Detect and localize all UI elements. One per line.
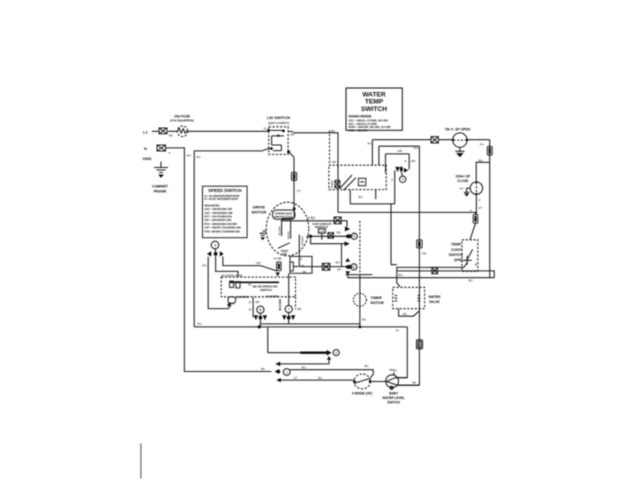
circle terminal 7 [285, 306, 292, 313]
wire PU drop from lid switch row down to bottom bus [193, 151, 195, 327]
node2 return wire [275, 356, 331, 366]
svg-text:BK/BU: BK/BU [330, 180, 334, 188]
bottom right bus y277.7 [348, 277, 495, 279]
svg-text:BK: BK [362, 317, 366, 321]
svg-text:BU: BU [359, 195, 363, 199]
wire 150A branch [476, 162, 490, 214]
circle terminal 6 [351, 264, 357, 270]
heavy contact bar [230, 281, 279, 283]
capacitor leg [321, 233, 323, 240]
svg-text:(open position): (open position) [268, 121, 289, 125]
node5 junction dot and arrow [346, 234, 353, 239]
svg-text:BU: BU [302, 366, 306, 370]
svg-text:BABY: BABY [389, 392, 399, 396]
wire node7 to bus [288, 318, 290, 324]
ground at 150A thermostat [464, 188, 470, 196]
wire link between rows [341, 244, 343, 267]
svg-text:JUMPER: JUMPER [237, 295, 250, 299]
svg-text:CAP: CAP [319, 229, 325, 233]
ground at TB thermostat [455, 147, 464, 157]
svg-text:TN: TN [480, 142, 484, 146]
svg-text:BK: BK [169, 134, 173, 138]
circle terminal 2 [333, 350, 339, 356]
wire contact box exit down left [349, 190, 351, 204]
svg-text:N: N [144, 146, 147, 151]
svg-text:FRAME: FRAME [154, 189, 167, 193]
svg-text:BU: BU [469, 279, 473, 283]
wire valve feed drop [397, 271, 400, 287]
timer row wire [346, 274, 373, 276]
connector on TB row [431, 137, 438, 143]
connector on y270.8 wire [432, 267, 438, 273]
contact wiper blades [340, 175, 366, 190]
circle terminal 5 [351, 233, 357, 239]
svg-text:CLOSE: CLOSE [457, 179, 468, 183]
circle terminal 1 [283, 369, 290, 376]
svg-text:B: B [301, 257, 303, 261]
svg-text:PU: PU [196, 155, 200, 159]
slow winding [277, 219, 281, 237]
fuse F1 15A [177, 126, 188, 137]
svg-text:BK OR BK-OR BK: BK OR BK-OR BK [222, 273, 243, 277]
svg-text:START: START [301, 236, 305, 246]
wire contact box exit stub [375, 190, 377, 200]
arrow into node 5 upper [345, 227, 350, 232]
wire right bus down [489, 140, 491, 278]
wire node4 down to y203.9 [394, 170, 396, 204]
connector upper on GN riser [417, 240, 422, 248]
svg-text:SWITCH: SWITCH [449, 253, 464, 257]
svg-text:VT: VT [294, 376, 298, 380]
wire L1 to lid switch [152, 130, 268, 132]
wire from agi box down [252, 297, 254, 317]
timer motor [353, 275, 366, 327]
svg-text:4: 4 [402, 178, 404, 182]
connector on RC row [322, 263, 330, 270]
svg-text:LID SWITCH: LID SWITCH [267, 115, 290, 120]
svg-text:VALVE: VALVE [429, 300, 441, 304]
capacitor box [318, 229, 325, 234]
svg-text:16: 16 [248, 283, 252, 287]
arrow up into jumper [227, 302, 231, 308]
long GN riser from contacts to water level switch [398, 146, 420, 385]
svg-text:SW: SW [282, 252, 287, 256]
wire TB row [372, 139, 489, 141]
svg-text:6: 6 [353, 265, 355, 269]
circle terminal 8 [257, 306, 264, 313]
svg-text:WATER LEVEL: WATER LEVEL [382, 396, 404, 400]
wire N down left side to node 1 [166, 148, 272, 372]
wire y243.7 [311, 236, 345, 243]
connector left of cent block [277, 262, 282, 271]
svg-text:BU: BU [365, 364, 369, 368]
svg-text:GN: GN [414, 146, 419, 150]
connector on BN drop [335, 180, 340, 188]
water valve box [393, 287, 425, 316]
wire node3 right leg OR [223, 257, 277, 272]
wire top BK from lid switch to water temp contacts [293, 133, 338, 213]
wire temp cont feed y212 [338, 212, 476, 214]
jumper link [228, 297, 236, 307]
node1 top right wire to x-rinse [290, 370, 373, 378]
wire bus B corner down to FULL contact [395, 327, 407, 378]
svg-text:GND: GND [143, 156, 152, 161]
connector on right bus [487, 146, 492, 155]
svg-text:AB: AB [403, 312, 407, 316]
speed switch legend box [203, 186, 248, 238]
svg-text:BU: BU [479, 158, 483, 162]
node1 junction [275, 369, 281, 374]
wire y203.9 across to temp cont riser [350, 204, 397, 265]
svg-text:PU: PU [368, 141, 372, 145]
svg-text:BN: BN [332, 160, 336, 164]
agitator speed switch dashed box [221, 277, 295, 297]
start winding [299, 235, 304, 257]
label OVERLOAD PROTECTOR [273, 210, 296, 219]
svg-text:WATER: WATER [362, 92, 386, 99]
node 3 junction arrows [207, 251, 224, 256]
connector on 6BU wire [334, 217, 341, 224]
arrows below connector [276, 272, 280, 276]
wire 6 BU from motor [282, 221, 348, 227]
svg-text:BU: BU [399, 273, 403, 277]
svg-text:X-RINSE (OF): X-RINSE (OF) [352, 391, 372, 395]
svg-text:BK: BK [261, 367, 265, 371]
node 4 contact arrows [395, 166, 408, 172]
svg-text:CONT.: CONT. [451, 248, 462, 252]
wire VT drop from lid switch to drive motor [293, 157, 295, 205]
svg-text:(GN): (GN) [454, 258, 463, 262]
svg-text:VT: VT [297, 189, 301, 193]
svg-text:F/N= BK/BK CHAR/BK-BK: F/N= BK/BK CHAR/BK-BK [205, 229, 241, 233]
thick arrow to node 2 [300, 350, 331, 356]
dashed drop from legend box to contact box [329, 130, 331, 165]
svg-text:5: 5 [353, 235, 355, 239]
connector 9 on GN riser [416, 340, 422, 349]
wire motor start to RC row [299, 256, 346, 266]
thermostat TB +/- SP OPEN [452, 133, 468, 147]
svg-text:(F10 EQUIPPED): (F10 EQUIPPED) [170, 118, 194, 122]
svg-text:6 BU: 6 BU [308, 216, 316, 220]
wire PU gamma into contacts [371, 140, 373, 166]
svg-text:B: B [475, 262, 477, 266]
svg-text:L1: L1 [143, 130, 148, 135]
node1 bottom wire [276, 378, 354, 382]
svg-text:FL: FL [396, 328, 400, 332]
wire cent block to node7 [288, 273, 290, 305]
svg-text:BK: BK [413, 381, 417, 385]
wire gamma y153.9 [386, 154, 410, 173]
wire lid switch lower feed from PU drop [194, 149, 271, 151]
svg-text:FULL: FULL [390, 368, 397, 372]
main winding [286, 221, 290, 239]
svg-text:10: 10 [301, 263, 305, 267]
svg-text:BK: BK [337, 231, 341, 235]
svg-text:SPEED SWITCH: SPEED SWITCH [208, 188, 241, 193]
svg-text:BK: BK [298, 307, 302, 311]
svg-text:TB +/- SP OPEN: TB +/- SP OPEN [445, 128, 471, 132]
svg-text:1: 1 [286, 371, 288, 375]
svg-text:WATER: WATER [429, 295, 442, 299]
temp control switch body [462, 223, 478, 271]
svg-text:BK: BK [331, 129, 335, 133]
centrifugal switch blade [278, 243, 290, 249]
motor ground [260, 231, 267, 240]
wire node3 left leg down [208, 257, 229, 309]
motor top node [282, 205, 296, 219]
svg-text:TEMP: TEMP [365, 99, 384, 106]
svg-text:AGITATE: AGITATE [266, 294, 279, 298]
wire OR gamma y146 [379, 146, 420, 165]
lid switch body [267, 127, 294, 157]
water temp switch contact box [329, 165, 386, 189]
svg-text:BK: BK [256, 300, 260, 304]
wire node8 to bus [259, 318, 261, 327]
water temp switch legend box [346, 88, 402, 132]
tick full contact [393, 372, 394, 375]
wire node6 down to bottom bus [347, 275, 349, 278]
x-rinse switch [353, 374, 386, 389]
node7 junction [282, 313, 295, 321]
svg-text:BU: BU [318, 376, 322, 380]
ground cabinet frame symbol [154, 162, 168, 178]
junction dot on y236.3 [309, 235, 312, 238]
node6 junction arrows [345, 258, 353, 275]
centrifugal switch block [290, 256, 312, 273]
svg-text:CABINET: CABINET [152, 184, 169, 188]
svg-text:TIMER: TIMER [371, 296, 383, 300]
svg-text:BUZZER: BUZZER [278, 299, 282, 310]
svg-text:9: 9 [418, 344, 420, 348]
drive motor outline [266, 202, 309, 256]
wire y270.8 to right then down [397, 271, 494, 278]
svg-text:TEMP: TEMP [451, 243, 462, 247]
svg-text:F= FAST INTERMITTENT: F= FAST INTERMITTENT [205, 197, 239, 201]
bus B [194, 326, 407, 328]
switch elements [230, 281, 240, 288]
svg-text:SLOW: SLOW [277, 226, 281, 235]
svg-text:GY: GY [460, 187, 464, 191]
arrow at end y243.7 [345, 241, 350, 246]
thermostat 150A SP CLOSE [470, 181, 482, 195]
svg-text:SWITCH: SWITCH [361, 106, 387, 113]
svg-text:11: 11 [264, 127, 267, 131]
svg-text:MOTOR: MOTOR [252, 210, 267, 215]
svg-text:PU: PU [198, 322, 202, 326]
svg-text:BT: BT [338, 267, 342, 271]
temp control switch connector [473, 215, 478, 224]
connector on y236.3 [328, 233, 334, 239]
svg-text:VT: VT [478, 206, 482, 210]
wire temp cont to left y267.4 [397, 267, 464, 271]
page frame mark bottom left [140, 444, 142, 479]
node8 junction [254, 313, 267, 320]
connector on N line [157, 145, 166, 151]
dashed box right extension [295, 297, 297, 310]
dashed riser to timer row [359, 221, 361, 275]
connector 8 on VT drop [292, 172, 297, 180]
svg-text:GN: GN [422, 252, 427, 256]
wire node3 center leg PU [216, 256, 238, 277]
connector on L1 line [159, 128, 167, 134]
svg-text:2: 2 [335, 351, 337, 355]
svg-text:PU: PU [203, 263, 207, 267]
wire to node 2 [268, 327, 300, 353]
svg-text:BK: BK [303, 270, 307, 274]
svg-text:SWITCH: SWITCH [260, 288, 272, 292]
svg-text:H/W = BK/OR: H/W = BK/OR [349, 128, 369, 132]
circle terminal 4 [400, 172, 406, 182]
svg-text:MOTOR: MOTOR [371, 301, 385, 305]
svg-text:GY/BK: GY/BK [274, 257, 283, 261]
junction dots on buses [258, 325, 362, 328]
svg-text:MAIN: MAIN [286, 232, 290, 240]
svg-text:SWITCH: SWITCH [387, 401, 400, 405]
baby water level switch [386, 375, 420, 389]
circle terminal 3 [211, 241, 219, 252]
wire y236.3 [306, 235, 348, 237]
svg-text:PU: PU [187, 154, 191, 158]
svg-text:BN: BN [411, 159, 415, 163]
bus A [260, 323, 360, 325]
